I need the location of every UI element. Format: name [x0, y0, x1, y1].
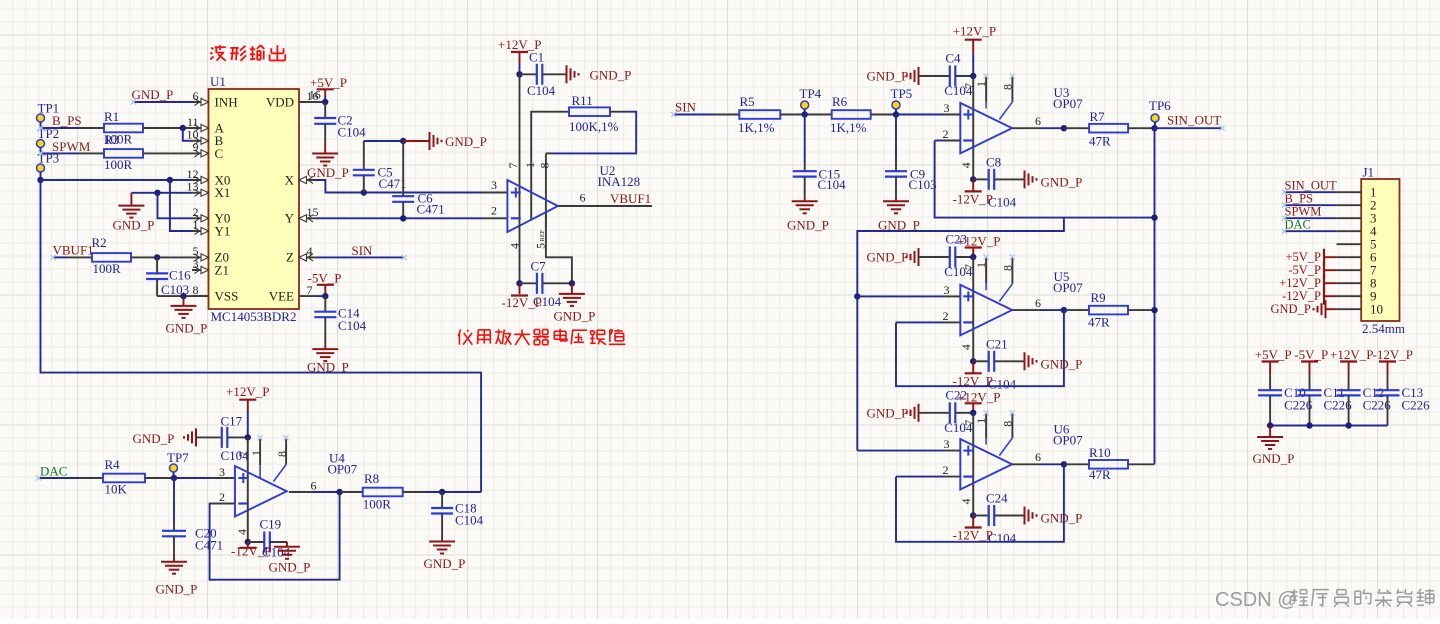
wire VEE pin7	[316, 295, 325, 297]
capacitor C1 C104	[520, 50, 567, 99]
junction TP4 node	[802, 111, 808, 117]
svg-text:-12V_P: -12V_P	[231, 544, 271, 559]
net label VBUF1 (U2 out)	[610, 191, 651, 206]
junction VEE node	[322, 293, 328, 299]
svg-text:R1: R1	[104, 109, 119, 124]
svg-text:C4: C4	[945, 51, 961, 66]
svg-text:Z1: Z1	[215, 263, 229, 278]
svg-text:VBUF1: VBUF1	[610, 191, 651, 206]
wire J1 pin4	[1285, 230, 1337, 232]
U4 pin7 column	[236, 437, 250, 497]
op-amp U4 OP07 triangle	[235, 451, 358, 517]
svg-text:GND_P: GND_P	[590, 68, 632, 83]
power ground GND_P under C20	[156, 557, 198, 597]
net label DAC (green)	[40, 464, 67, 479]
power ground GND_P under C15	[787, 197, 829, 233]
U6 output pin6	[1012, 450, 1064, 464]
J1 pin 6	[1337, 250, 1377, 265]
svg-text:GND_P: GND_P	[554, 309, 596, 324]
junction REF/gnd node	[569, 280, 575, 286]
U6 pin3 lead	[943, 437, 960, 451]
junction feedback/bus	[1151, 214, 1157, 220]
svg-text:GND_P: GND_P	[867, 250, 909, 265]
svg-text:GND_P: GND_P	[445, 134, 487, 149]
svg-text:+12V_P: +12V_P	[1330, 347, 1373, 362]
wire R2 to Z0 pin	[131, 256, 192, 258]
wire VBUF1 stub	[53, 256, 92, 258]
capacitor C23 C104 (top bypass)	[944, 232, 973, 280]
U1 right pin 7	[299, 283, 316, 297]
J1 pin 2	[1337, 198, 1377, 213]
wire J1 pin2	[1285, 204, 1337, 206]
wire top GND rail	[364, 140, 403, 142]
U2 pin2 lead	[483, 204, 508, 219]
svg-text:3: 3	[944, 101, 950, 115]
svg-text:-12V_P: -12V_P	[1373, 347, 1413, 362]
wire to U4 pin3	[174, 465, 235, 479]
power ground GND_P under VSS	[166, 296, 208, 335]
svg-text:GND_P: GND_P	[1041, 174, 1083, 189]
wire J1 pin1	[1285, 191, 1337, 193]
svg-text:SIN_OUT: SIN_OUT	[1167, 113, 1221, 128]
resistor R5 1K,1%	[738, 94, 780, 135]
svg-text:C104: C104	[818, 177, 847, 192]
net label SIN_OUT	[1167, 113, 1221, 128]
capacitor C17 C104	[221, 414, 250, 464]
testpoint TP5	[891, 86, 913, 115]
svg-text:GND_P: GND_P	[166, 321, 208, 336]
svg-text:C: C	[215, 146, 224, 161]
capacitor C24 C104 (bottom bypass)	[973, 491, 1023, 546]
power port -5V_P (bypass)	[1294, 347, 1328, 374]
wire R5 to TP4	[780, 114, 804, 116]
junction VSS ground	[180, 293, 186, 299]
svg-text:-12V_P: -12V_P	[953, 528, 993, 543]
svg-text:J1: J1	[1363, 165, 1375, 180]
svg-text:TP6: TP6	[1149, 98, 1171, 113]
svg-text:TP4: TP4	[800, 86, 822, 101]
power port +5V_P	[310, 75, 347, 102]
op-amp U2 INA128 triangle	[507, 163, 640, 232]
svg-text:6: 6	[311, 479, 317, 493]
wire R7 to TP6	[1128, 127, 1154, 129]
power port -12V_P (U4)	[231, 542, 271, 559]
wire U3 out to R7	[1064, 127, 1089, 129]
svg-text:2: 2	[943, 309, 949, 323]
resistor R7 47R	[1089, 109, 1128, 149]
svg-text:R10: R10	[1089, 445, 1111, 460]
power port -5V_P	[308, 271, 342, 297]
wire TP5 to U3 pin3	[896, 114, 960, 116]
svg-text:3: 3	[944, 437, 950, 451]
capacitor C2 C104	[314, 102, 366, 143]
svg-text:MC14053BDR2: MC14053BDR2	[211, 309, 297, 324]
power port +12V_P (U3)	[953, 24, 996, 76]
U1 pin 5	[192, 244, 209, 261]
svg-text:U1: U1	[210, 74, 226, 89]
wire R8 to C18 node	[425, 491, 481, 493]
capacitor C18 C104	[431, 492, 484, 537]
J1 pin 1	[1337, 185, 1377, 200]
wire tap to U6 pin3	[857, 450, 943, 452]
svg-text:2.54mm: 2.54mm	[1362, 321, 1405, 336]
svg-text:1: 1	[249, 450, 263, 456]
resistor R9 47R	[1088, 290, 1128, 330]
svg-text:C103: C103	[909, 177, 937, 192]
junction -12V rail U6	[970, 512, 976, 518]
svg-text:R11: R11	[572, 93, 593, 108]
svg-text:C226: C226	[1402, 398, 1431, 413]
wire SPWM to R3	[41, 152, 105, 154]
svg-text:C19: C19	[260, 517, 282, 532]
svg-text:100K,1%: 100K,1%	[569, 119, 619, 134]
capacitor C15 C104	[793, 115, 846, 198]
junction bypass rail	[1267, 422, 1273, 428]
svg-text:Y: Y	[285, 211, 295, 226]
power ground GND_P sideways (C21)	[1025, 352, 1083, 371]
wire Z net	[316, 256, 404, 258]
U6 pin2 lead	[943, 463, 961, 477]
power port +12V_P (U5)	[957, 234, 1000, 258]
svg-text:DAC: DAC	[1285, 218, 1311, 232]
svg-text:GND_P: GND_P	[1041, 511, 1083, 526]
net label DAC (J1, green)	[1285, 218, 1311, 232]
svg-text:16: 16	[309, 88, 321, 102]
svg-text:-12V_P: -12V_P	[502, 295, 542, 310]
U2 pin7 column	[506, 74, 520, 224]
testpoint TP4	[800, 86, 822, 115]
wire GND_P to pin6	[134, 101, 193, 103]
U2 pin4 column	[508, 225, 522, 284]
U1 pin 2	[192, 205, 209, 222]
svg-text:OP07: OP07	[1053, 280, 1083, 295]
svg-text:GND_P: GND_P	[132, 87, 174, 102]
capacitor C12 C226	[1337, 374, 1392, 426]
capacitor C20 C471	[162, 478, 223, 557]
testpoint TP1	[37, 101, 60, 129]
svg-text:1: 1	[974, 81, 988, 87]
power port -12V_P (bypass)	[1373, 347, 1413, 374]
wire X1 to Y0 strap	[158, 193, 193, 219]
svg-text:6: 6	[1035, 296, 1041, 310]
net label SIN at Z pin	[352, 243, 374, 258]
svg-text:X: X	[285, 172, 295, 187]
junction pin11/pin10	[180, 125, 186, 131]
U4 pin4 column	[235, 498, 249, 543]
power ground GND_P sideways (C8)	[1025, 170, 1083, 189]
U3 pin4 column	[959, 149, 973, 179]
U6 pin4 column	[959, 486, 973, 516]
capacitor C19 C104	[248, 517, 291, 560]
svg-text:4: 4	[508, 243, 522, 249]
svg-text:VBUF1: VBUF1	[53, 243, 94, 258]
svg-text:2: 2	[943, 127, 949, 141]
junction TP6/SIN_OUT	[1151, 125, 1157, 131]
svg-text:R2: R2	[92, 235, 107, 250]
svg-text:DAC: DAC	[40, 464, 67, 479]
junction +12V/C1 rail	[516, 71, 522, 77]
svg-text:C1: C1	[529, 50, 544, 65]
svg-text:6: 6	[1035, 450, 1041, 464]
power port +5V_P (bypass)	[1255, 347, 1292, 374]
resistor R8 100R	[340, 471, 425, 512]
net label VBUF1 (R2 input)	[53, 243, 94, 258]
U1 pin 3	[192, 257, 209, 274]
wire U5 feedback	[896, 310, 1064, 386]
power port +12V_P (J1)	[1279, 275, 1336, 292]
net label B_PS	[52, 113, 82, 128]
IC U1 MC14053BDR2 body	[209, 74, 300, 324]
wire X1 net	[131, 192, 192, 194]
power ground GND_P sideways (top bypass C4)	[867, 67, 950, 85]
power ground GND_P sideways (C17)	[133, 428, 222, 446]
svg-text:C17: C17	[221, 414, 243, 429]
svg-text:1: 1	[974, 262, 988, 268]
U4 pin1 stub	[249, 438, 263, 478]
svg-text:C104: C104	[455, 513, 484, 528]
svg-text:1: 1	[523, 162, 537, 168]
junction R8/C18	[439, 489, 445, 495]
junction U3 out	[1061, 125, 1067, 131]
U1 pin 1	[192, 218, 209, 235]
svg-text:9: 9	[193, 140, 199, 154]
power ground GND_P under C2	[307, 143, 349, 180]
svg-text:X1: X1	[215, 185, 231, 200]
U6 pin8 stub	[999, 413, 1014, 455]
junction X0/Y1 strap	[167, 177, 173, 183]
svg-text:B_PS: B_PS	[1285, 192, 1314, 206]
annotation title 波形输出	[210, 45, 285, 61]
power ground GND_P under C14	[307, 345, 349, 375]
junction C5 bottom on X wire	[361, 189, 367, 195]
svg-text:47R: 47R	[1089, 134, 1111, 149]
wire U4 output return to X0 node	[41, 180, 482, 492]
svg-text:INH: INH	[215, 94, 238, 109]
svg-text:VSS: VSS	[215, 288, 239, 303]
junction +12V/U4 pin7	[245, 434, 251, 440]
U2 output pin6 wire	[558, 191, 652, 207]
svg-text:6: 6	[580, 191, 586, 205]
junction VDD node	[322, 99, 328, 105]
J1 pin 8	[1337, 276, 1377, 291]
power port -12V_P (J1)	[1282, 288, 1337, 305]
capacitor C14 C104	[314, 296, 366, 345]
U6 pin7 column	[962, 413, 976, 486]
svg-text:C16: C16	[169, 268, 191, 283]
power port -12V_P (U5)	[953, 361, 993, 388]
power ground GND_P sideways on top rail	[403, 132, 487, 150]
svg-text:VDD: VDD	[266, 94, 294, 109]
wire X0 to Y1 strap	[170, 180, 192, 231]
capacitor C13 C226	[1376, 374, 1431, 426]
U4 output pin6	[289, 479, 340, 493]
U2 pin8 column	[538, 153, 552, 228]
wire C16 to VSS	[157, 295, 208, 297]
svg-text:5: 5	[534, 243, 548, 249]
junction bypass rail	[1306, 422, 1312, 428]
wire R9 to bus	[1128, 309, 1155, 311]
U6 pin1 stub	[974, 413, 988, 444]
resistor R6 1K,1%	[830, 94, 871, 135]
junction -12V rail U5	[970, 358, 976, 364]
svg-text:4: 4	[959, 344, 973, 350]
capacitor C4 C104 (top bypass)	[944, 51, 973, 99]
svg-text:+12V_P: +12V_P	[953, 24, 996, 39]
testpoint TP7	[167, 450, 189, 478]
svg-text:VEE: VEE	[269, 288, 294, 303]
svg-text:C104: C104	[527, 83, 556, 98]
power ground GND_P (J1 pin10)	[1271, 300, 1337, 318]
wire output bus vertical	[1154, 128, 1156, 464]
svg-text:+5V_P: +5V_P	[1285, 250, 1321, 264]
junction U5 out	[1061, 307, 1067, 313]
power ground GND_P under C18	[424, 537, 466, 571]
svg-text:Z: Z	[286, 250, 294, 265]
svg-text:13: 13	[187, 180, 199, 194]
power port -12V_P (U2)	[502, 283, 542, 310]
svg-text:3: 3	[491, 178, 497, 192]
svg-text:GND_P: GND_P	[156, 582, 198, 597]
svg-text:-12V_P: -12V_P	[953, 191, 993, 206]
wire TP4 to R6	[805, 114, 832, 116]
svg-text:3: 3	[193, 257, 199, 271]
svg-text:GND_P: GND_P	[787, 218, 829, 233]
svg-text:GND_P: GND_P	[867, 69, 909, 84]
svg-text:R9: R9	[1091, 290, 1106, 305]
svg-text:TP7: TP7	[167, 450, 189, 465]
capacitor C5 C471	[353, 141, 407, 193]
net label GND_P (INH)	[132, 87, 174, 102]
power ground GND_P sideways (C1)	[567, 65, 632, 83]
wire R3 to pin9	[143, 152, 192, 154]
svg-text:GND_P: GND_P	[1271, 302, 1311, 316]
resistor R11 100K,1%	[546, 93, 619, 134]
connector J1 body	[1361, 165, 1405, 337]
svg-text:CSDN @: CSDN @	[1215, 589, 1298, 611]
wire R4 to TP7 node	[145, 477, 174, 479]
svg-text:8: 8	[193, 283, 199, 297]
wire R10 to bus corner	[1128, 463, 1155, 465]
power ground GND_P sideways (top bypass C22)	[867, 404, 950, 422]
wire U3 feedback	[935, 141, 1155, 218]
wire DAC to R4	[39, 477, 104, 479]
svg-text:OP07: OP07	[1053, 433, 1083, 448]
svg-text:6: 6	[1035, 114, 1041, 128]
U1 pin 8	[192, 283, 209, 297]
svg-text:INA128: INA128	[598, 174, 641, 189]
U1 pin 10	[187, 128, 209, 145]
svg-text:C104: C104	[338, 318, 367, 333]
U2 pin1 column / R11 left	[523, 112, 546, 220]
svg-text:R6: R6	[832, 94, 848, 109]
svg-text:REF: REF	[539, 229, 546, 241]
svg-text:7: 7	[236, 451, 250, 457]
power port -12V_P (U6)	[953, 516, 993, 543]
U3 output pin6	[1012, 114, 1064, 128]
U5 pin3 lead	[943, 283, 960, 297]
power port -5V_P (J1)	[1288, 262, 1336, 279]
wire X pin to filter rail	[316, 180, 483, 193]
power port +12V_P (bypass)	[1330, 347, 1373, 374]
svg-text:8: 8	[1001, 84, 1015, 90]
svg-text:7: 7	[506, 163, 520, 169]
junction TP5 node	[893, 111, 899, 117]
capacitor C16 C103	[146, 257, 191, 297]
U1 pin 13	[187, 180, 209, 197]
op-amp U5 OP07 triangle	[960, 269, 1083, 335]
U5 output pin6	[1012, 296, 1064, 310]
wire B_PS to R1	[41, 127, 105, 129]
power ground GND_P under C9	[878, 197, 920, 233]
wire X0 net	[41, 179, 193, 181]
power port +5V_P (J1)	[1285, 249, 1336, 266]
testpoint TP3	[37, 151, 60, 181]
U1 right pin 4	[299, 244, 316, 261]
svg-text:1: 1	[193, 218, 199, 232]
J1 pin 7	[1337, 263, 1377, 278]
power port +12V_P (U4)	[226, 384, 269, 437]
svg-text:GND_P: GND_P	[307, 165, 349, 180]
svg-text:4: 4	[235, 529, 249, 535]
J1 pin 3	[1337, 211, 1377, 226]
svg-text:1K,1%: 1K,1%	[830, 120, 867, 135]
power ground GND_P sideways (top bypass C23)	[867, 248, 950, 266]
svg-text:GND_P: GND_P	[1041, 356, 1083, 371]
svg-text:SIN: SIN	[675, 100, 697, 115]
net label SIN (chain input)	[675, 100, 697, 115]
svg-text:100R: 100R	[93, 261, 122, 276]
op-amp U6 OP07 triangle	[960, 422, 1083, 490]
junction U6 out	[1061, 461, 1067, 467]
svg-text:R8: R8	[364, 471, 379, 486]
svg-text:R4: R4	[105, 457, 121, 472]
J1 pin 4	[1337, 224, 1377, 239]
net label SPWM (J1)	[1285, 205, 1322, 219]
svg-text:1K,1%: 1K,1%	[738, 120, 775, 135]
wire SIN_OUT stub	[1155, 127, 1223, 129]
net label B_PS (J1)	[1285, 192, 1314, 206]
svg-text:GND_P: GND_P	[113, 218, 155, 233]
svg-text:C471: C471	[417, 202, 445, 217]
U1 pin 9	[192, 140, 209, 157]
U1 pin 11	[187, 115, 209, 132]
svg-text:C22: C22	[945, 387, 967, 402]
wire tap to U5 pin3	[857, 295, 943, 297]
power ground GND_P sideways (C24)	[1025, 507, 1083, 526]
resistor R2 100R	[92, 235, 132, 276]
U5 pin7 column	[962, 257, 976, 331]
svg-text:100R: 100R	[104, 157, 133, 172]
svg-text:4: 4	[959, 162, 973, 168]
power ground GND_P at X1	[113, 193, 155, 233]
svg-text:R7: R7	[1090, 109, 1106, 124]
power port -12V_P (U3)	[953, 179, 993, 206]
U1 right pin 15	[299, 205, 319, 222]
svg-text:6: 6	[193, 89, 199, 103]
svg-text:-12V_P: -12V_P	[1282, 289, 1321, 303]
capacitor C11 C226	[1298, 374, 1353, 426]
svg-text:C7: C7	[531, 259, 547, 274]
wire U6 out to R10	[1064, 463, 1089, 465]
capacitor C21 C104 (bottom bypass)	[973, 336, 1023, 391]
wire J1 pin3	[1285, 217, 1337, 219]
J1 pin 9	[1337, 289, 1377, 304]
junction R9/bus	[1151, 307, 1157, 313]
wire stage2 input tap	[857, 218, 1064, 451]
wire SIN to R5	[674, 114, 740, 116]
power port +12V_P (U2)	[498, 37, 541, 74]
svg-text:GND_P: GND_P	[1253, 451, 1295, 466]
